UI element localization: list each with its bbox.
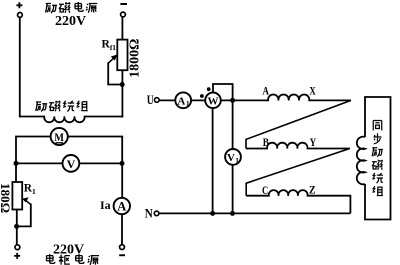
phase B winding <box>246 143 350 149</box>
wire diagonal Y to C with C start vertical <box>246 149 350 196</box>
ammeter A <box>114 198 130 214</box>
wire bottom rail <box>159 212 350 214</box>
terminal - (armature supply) <box>119 245 125 257</box>
wire R1 to + terminal <box>16 210 18 246</box>
junction dot R1 wiper <box>14 224 19 229</box>
synchronous field winding box <box>365 97 391 220</box>
wire main AC line with phase A coil <box>159 94 351 100</box>
wire V line <box>16 162 122 164</box>
svg-text:V: V <box>227 152 235 164</box>
voltmeter V <box>63 155 80 172</box>
junction dot voltage tap <box>230 98 235 103</box>
terminal - (field supply negative) <box>120 3 127 17</box>
wire W voltage tap bracket <box>213 84 233 100</box>
svg-text:A: A <box>117 200 126 214</box>
wiper arrow R1 <box>18 197 31 226</box>
wire V1 branch <box>232 100 234 213</box>
svg-text:1: 1 <box>235 156 239 165</box>
label 同步励磁绕组 <box>372 120 383 195</box>
svg-text:U: U <box>147 92 154 107</box>
wire W bottom branch <box>212 108 214 213</box>
svg-text:Ia: Ia <box>100 198 111 212</box>
svg-text:Rf1: Rf1 <box>102 39 117 53</box>
ammeter A1 <box>175 92 191 108</box>
junction dot Rf1 wiper <box>120 82 125 87</box>
wiper arrow Rf1 <box>108 55 120 85</box>
svg-text:180Ω: 180Ω <box>0 183 13 213</box>
wire M line <box>16 137 122 139</box>
wire from - terminal down to Rf1 <box>121 17 123 40</box>
polarity dot voltage coil <box>207 87 211 91</box>
terminal U <box>147 92 159 107</box>
svg-text:Z: Z <box>309 185 316 197</box>
junction dot rail W branch <box>210 211 215 216</box>
svg-text:220V: 220V <box>55 14 86 29</box>
field winding line with coil (humps down) <box>19 117 123 123</box>
terminal + (field supply positive) <box>16 2 22 17</box>
junction dot V line left <box>14 161 19 166</box>
wire A to - terminal <box>121 214 123 245</box>
svg-text:A: A <box>177 95 185 107</box>
junction dot rail V1 branch <box>230 211 235 216</box>
svg-text:A: A <box>263 86 270 98</box>
svg-text:Y: Y <box>310 137 317 149</box>
wire armature right vertical upper <box>121 137 123 199</box>
wire field right vertical <box>121 70 123 117</box>
label 励磁电源 <box>46 2 98 13</box>
motor M <box>51 128 68 145</box>
svg-text:N: N <box>145 206 154 221</box>
label 电枢电源 <box>47 254 100 265</box>
resistor Rf1 body <box>117 40 127 71</box>
svg-text:V: V <box>67 157 76 171</box>
wattmeter W <box>205 93 221 109</box>
svg-text:W: W <box>208 96 219 108</box>
wire armature left vertical <box>15 137 17 183</box>
svg-text:X: X <box>309 86 316 98</box>
junction dot V line right <box>120 161 125 166</box>
wire field left vertical <box>19 17 21 117</box>
resistor R1 body <box>12 182 22 210</box>
polarity dot current coil <box>200 94 204 98</box>
svg-text:M: M <box>54 130 64 144</box>
svg-text:1: 1 <box>186 99 190 108</box>
label 励磁绕组 <box>36 101 88 112</box>
terminal N <box>145 206 159 221</box>
svg-text:C: C <box>262 185 268 197</box>
svg-text:B: B <box>263 137 269 149</box>
rotor winding coil <box>357 137 365 185</box>
phase C winding with right end down to rail <box>246 190 350 213</box>
svg-text:1800Ω: 1800Ω <box>127 39 142 78</box>
voltmeter V1 <box>225 149 241 165</box>
terminal + (armature supply) <box>14 245 20 259</box>
wire diagonal X to B with B start vertical <box>246 100 351 148</box>
svg-text:R1: R1 <box>24 183 36 197</box>
